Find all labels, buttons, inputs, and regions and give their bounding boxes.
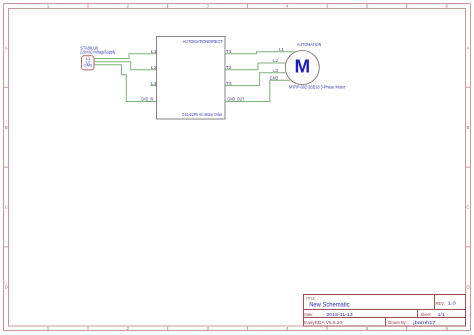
svg-text:L3: L3	[151, 81, 157, 86]
svg-text:New Schematic: New Schematic	[309, 302, 349, 308]
svg-text:Date:: Date:	[304, 312, 313, 317]
svg-text:L2: L2	[273, 58, 278, 63]
pin stub drive L3	[150, 85, 156, 87]
frame zone ticks top	[88, 4, 407, 9]
title block outline	[304, 295, 466, 327]
wire supply GND to drive GND_IN	[94, 65, 156, 102]
frame zone ticks right	[466, 87, 471, 247]
svg-text:GS1-22P0 AC Motor Drive: GS1-22P0 AC Motor Drive	[182, 112, 223, 117]
voltage supply component box	[82, 56, 94, 70]
svg-text:L1: L1	[151, 49, 157, 54]
svg-text:TITLE:: TITLE:	[306, 296, 316, 301]
frame zone numbers bottom	[47, 326, 449, 331]
svg-text:1/1: 1/1	[438, 312, 445, 318]
svg-text:A: A	[466, 45, 469, 50]
svg-text:MTRP-002-3BD18 3-Phase Motor: MTRP-002-3BD18 3-Phase Motor	[289, 85, 346, 90]
svg-text:GND_IN: GND_IN	[141, 97, 153, 102]
wire drive T1 to motor L1	[225, 52, 295, 54]
frame zone numbers top	[47, 4, 449, 9]
svg-text:REV:: REV:	[436, 301, 446, 306]
wire drive T2 to motor L2	[225, 63, 285, 70]
svg-text:Drawn By:: Drawn By:	[388, 320, 407, 325]
frame zone ticks bottom	[88, 326, 407, 331]
svg-text:AUTOMATION: AUTOMATION	[297, 42, 321, 47]
motor M1 circle	[285, 51, 319, 85]
wire supply L1 to drive L1	[94, 54, 156, 59]
svg-text:220VACVoltageSupply: 220VACVoltageSupply	[80, 49, 116, 54]
frame zone letters right	[466, 45, 470, 289]
svg-text:T1: T1	[226, 49, 232, 54]
svg-text:L1: L1	[279, 47, 284, 52]
svg-text:EasyEDA V5.8.20: EasyEDA V5.8.20	[304, 320, 343, 325]
svg-text:T2: T2	[226, 65, 232, 70]
svg-text:jbarnh17: jbarnh17	[412, 320, 436, 326]
svg-text:A: A	[5, 45, 8, 50]
svg-text:AUTOMATIONDIRECT: AUTOMATIONDIRECT	[183, 39, 223, 44]
svg-text:GND: GND	[84, 63, 93, 68]
frame zone letters left	[5, 45, 9, 289]
svg-text:GND: GND	[270, 76, 279, 81]
wire drive T3 to motor L3	[225, 73, 285, 86]
svg-text:1.0: 1.0	[448, 301, 457, 307]
svg-text:2018-11-13: 2018-11-13	[326, 312, 353, 318]
wire supply L2 to drive L2	[94, 62, 156, 70]
frame zone ticks left	[4, 87, 9, 247]
svg-text:B: B	[466, 125, 469, 130]
svg-text:L2: L2	[151, 65, 157, 70]
svg-text:L3: L3	[273, 68, 278, 73]
AC motor drive U1 box	[157, 37, 226, 120]
svg-text:T3: T3	[226, 81, 232, 86]
wire drive GND_OUT to motor GND	[225, 80, 290, 101]
svg-text:Sheet:: Sheet:	[421, 312, 432, 317]
svg-text:M: M	[294, 55, 310, 76]
svg-text:B: B	[5, 125, 8, 130]
svg-text:GND_OUT: GND_OUT	[227, 97, 244, 102]
